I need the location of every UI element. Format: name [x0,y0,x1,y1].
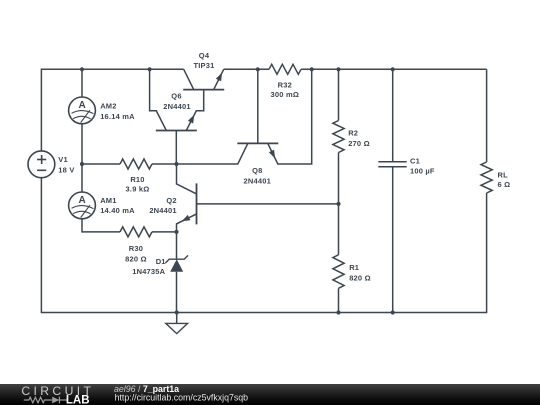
svg-text:1N4735A: 1N4735A [132,267,165,276]
svg-text:2N4401: 2N4401 [149,206,176,215]
svg-text:300 mΩ: 300 mΩ [271,90,299,99]
svg-text:Q8: Q8 [252,166,262,175]
svg-text:270 Ω: 270 Ω [348,139,370,148]
svg-text:AM1: AM1 [100,196,116,205]
svg-text:http://circuitlab.com/cz5vfkxj: http://circuitlab.com/cz5vfkxjq7sqb [115,393,249,403]
svg-text:R32: R32 [278,81,292,90]
svg-text:V1: V1 [58,155,68,164]
svg-text:100 µF: 100 µF [410,166,435,175]
svg-text:D1: D1 [156,257,166,266]
svg-text:AM2: AM2 [100,102,116,111]
svg-text:820 Ω: 820 Ω [349,274,371,283]
svg-text:14.40 mA: 14.40 mA [100,206,135,215]
svg-text:820 Ω: 820 Ω [125,254,147,263]
svg-text:C1: C1 [410,156,420,165]
svg-text:2N4401: 2N4401 [244,176,271,185]
svg-text:6 Ω: 6 Ω [498,180,511,189]
svg-text:LAB: LAB [66,395,90,405]
svg-text:R30: R30 [129,244,143,253]
svg-text:TIP31: TIP31 [193,61,214,70]
svg-text:3.9 kΩ: 3.9 kΩ [126,185,150,194]
svg-text:A: A [78,100,85,111]
svg-text:A: A [78,195,85,206]
svg-text:Q2: Q2 [166,196,176,205]
svg-text:16.14 mA: 16.14 mA [100,112,135,121]
svg-text:R10: R10 [130,175,144,184]
svg-text:RL: RL [498,171,509,180]
svg-text:Q4: Q4 [199,51,210,60]
svg-text:18 V: 18 V [58,165,74,174]
svg-text:R2: R2 [348,129,358,138]
svg-text:R1: R1 [349,263,359,272]
svg-text:2N4401: 2N4401 [163,102,190,111]
svg-text:Q6: Q6 [171,92,181,101]
